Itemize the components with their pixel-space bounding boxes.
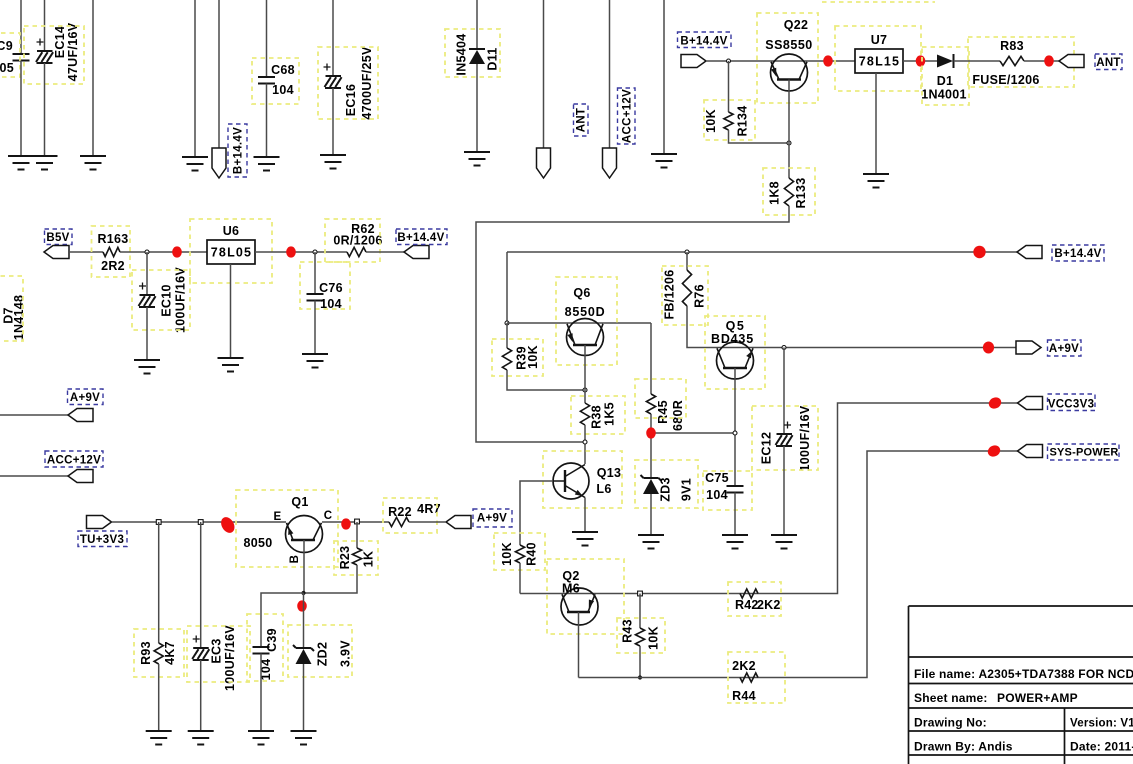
capacitor C68 — [252, 58, 299, 104]
wire R62 to port — [366, 251, 404, 253]
wire rail 11 — [663, 0, 665, 154]
svg-text:L6: L6 — [596, 482, 611, 496]
junction at R23 top — [355, 519, 360, 524]
wire R39 bottom to R38 — [507, 370, 585, 390]
transistor Q1 8050 — [236, 490, 338, 567]
capacitor C75 104 — [703, 471, 752, 510]
svg-text:C9: C9 — [0, 39, 13, 53]
wire EC14 to ground — [44, 63, 46, 156]
svg-text:R163: R163 — [97, 232, 128, 246]
wire R38 top — [584, 390, 586, 403]
red junction dot B+14.4V rail — [973, 246, 985, 258]
wire A+9V left — [0, 414, 68, 416]
svg-text:Q5: Q5 — [726, 319, 746, 333]
svg-text:ANT: ANT — [1096, 57, 1121, 69]
ground rail 3 — [80, 156, 106, 170]
resistor R43 10K — [617, 618, 665, 653]
svg-text:680R: 680R — [671, 400, 685, 431]
svg-text:Drawing No:: Drawing No: — [914, 716, 987, 730]
svg-text:E: E — [274, 511, 282, 523]
resistor R133 1K8 — [763, 168, 815, 215]
svg-text:3.9V: 3.9V — [339, 640, 353, 667]
svg-text:ANT: ANT — [576, 108, 588, 133]
wire junction row — [651, 432, 735, 434]
junction at R134 top — [727, 59, 731, 63]
svg-text:1K8: 1K8 — [768, 181, 782, 205]
capacitor C76 104 — [300, 262, 350, 311]
svg-text:100UF/16V: 100UF/16V — [174, 267, 188, 333]
wire Q2 base down — [578, 612, 580, 678]
wire D1 to R83 — [954, 60, 1001, 62]
svg-text:D1: D1 — [937, 74, 954, 88]
svg-text:Q6: Q6 — [573, 286, 590, 300]
junction at R93 — [156, 520, 161, 525]
ground D11 — [464, 152, 490, 166]
svg-text:ACC+12V: ACC+12V — [47, 455, 101, 467]
ground R93 — [146, 731, 172, 745]
wire net EC16 top — [332, 0, 334, 76]
capacitor EC3 100UF/16V — [187, 625, 250, 691]
wire Q13 emitter to ground — [584, 498, 586, 533]
wire net C9 top — [20, 0, 22, 54]
resistor R39 10K — [492, 339, 543, 376]
svg-text:POWER+AMP: POWER+AMP — [997, 691, 1078, 705]
svg-text:R42: R42 — [735, 598, 759, 612]
svg-text:R133: R133 — [794, 177, 808, 208]
node ACC+12V flag (top) — [603, 88, 636, 178]
svg-text:R93: R93 — [139, 641, 153, 665]
svg-text:C76: C76 — [319, 281, 343, 295]
wire net ACC+12V stub — [609, 0, 611, 148]
ground EC14 — [32, 156, 58, 170]
svg-text:U6: U6 — [223, 224, 240, 238]
node TU+3V3 port — [78, 516, 127, 547]
svg-text:8050: 8050 — [243, 536, 272, 550]
svg-text:R45: R45 — [656, 400, 670, 424]
svg-text:EC10: EC10 — [160, 284, 174, 316]
svg-text:TU+3V3: TU+3V3 — [80, 534, 124, 546]
svg-text:EC14: EC14 — [53, 26, 67, 58]
junction at R76 top — [685, 250, 689, 254]
svg-text:ZD2: ZD2 — [316, 642, 330, 667]
wire B+14.4V to Q22/U7 — [706, 60, 855, 62]
svg-text:File name: A2305+TDA7388 FOR N: File name: A2305+TDA7388 FOR NCD30 — [914, 667, 1133, 681]
wire rail 4 — [194, 0, 196, 157]
wire C68 to ground — [266, 84, 268, 158]
svg-text:A+9V: A+9V — [477, 513, 507, 525]
svg-text:A+9V: A+9V — [70, 392, 100, 404]
wire rail corner down — [506, 252, 508, 323]
wire C9 to ground — [20, 61, 22, 157]
svg-text:EC16: EC16 — [344, 84, 358, 116]
svg-text:R43: R43 — [621, 619, 635, 643]
node A+9V port (mid) — [446, 509, 512, 529]
svg-text:B+14.4V: B+14.4V — [397, 232, 444, 244]
ground ZD2 — [291, 731, 317, 745]
wire net C68 top — [266, 0, 268, 77]
svg-text:ZD3: ZD3 — [659, 477, 673, 502]
diode D7 1N4148 (clipped) — [0, 276, 26, 341]
svg-text:R83: R83 — [1000, 39, 1024, 53]
svg-text:B: B — [289, 555, 301, 564]
svg-text:R76: R76 — [693, 284, 707, 308]
red junction dot Q1 collector — [341, 518, 351, 529]
wire B+14.4V rail — [507, 251, 1017, 253]
svg-text:105: 105 — [0, 61, 14, 75]
resistor R76 FB/1206 — [662, 266, 708, 325]
svg-text:10K: 10K — [704, 109, 718, 133]
ground C76 — [302, 354, 328, 368]
wire Q6 chord — [507, 322, 651, 324]
svg-text:B+14.4V: B+14.4V — [680, 36, 727, 48]
node B+14.4V port (mid) — [396, 229, 447, 259]
svg-text:78L15: 78L15 — [859, 55, 900, 69]
ground EC3 — [188, 731, 214, 745]
wire ACC+12V left — [0, 475, 68, 477]
wire ZD2 to ground — [303, 664, 305, 731]
svg-text:R23: R23 — [338, 546, 352, 570]
node ANT flag (top) — [537, 104, 589, 178]
wire rail 3 — [92, 0, 94, 156]
red junction dot TU line — [218, 515, 237, 536]
node ANT port (right) — [1059, 54, 1122, 70]
svg-text:A+9V: A+9V — [1049, 343, 1079, 355]
ground C9 — [8, 156, 34, 170]
node SYS-POWER port — [1018, 444, 1120, 460]
svg-text:2K2: 2K2 — [732, 659, 756, 673]
transistor Q13 L6 — [543, 451, 622, 508]
wire U6 ground pin — [230, 264, 232, 358]
wire Q6 base down — [584, 345, 586, 390]
junction at EC10 — [145, 250, 149, 254]
ground EC10 — [134, 360, 160, 374]
wire Q6 collector down / R45 branch — [650, 323, 652, 394]
svg-text:VCC3V3: VCC3V3 — [1048, 399, 1095, 411]
wire R40 to Q2 chord rail — [520, 403, 1018, 594]
wire Q1 collector — [322, 521, 389, 523]
resistor R38 1K5 — [571, 396, 625, 434]
wire net D11 top — [476, 0, 478, 50]
ground rail 4 — [182, 157, 208, 171]
wire U7 ground pin — [875, 73, 877, 174]
wire R93 down — [158, 522, 160, 643]
wire B5V to R163 — [69, 251, 103, 253]
wire Q13 base — [520, 481, 553, 545]
svg-text:C: C — [324, 510, 333, 522]
transistor Q5 BD435 — [705, 316, 765, 389]
wire R43 top — [639, 594, 641, 629]
wire R134 bottom — [729, 130, 790, 143]
svg-text:Date: 2011-7: Date: 2011-7 — [1070, 740, 1133, 754]
wire C76 to ground — [314, 301, 316, 355]
svg-text:D11: D11 — [486, 47, 500, 70]
svg-text:9V1: 9V1 — [680, 478, 694, 501]
svg-text:0R/1206: 0R/1206 — [333, 234, 382, 248]
wire EC16 to ground — [332, 88, 334, 155]
svg-text:R38: R38 — [590, 405, 604, 429]
transistor Q6 8550D — [556, 277, 617, 365]
svg-text:R40: R40 — [525, 542, 539, 566]
wire C75 to ground — [734, 493, 736, 536]
svg-text:BD435: BD435 — [711, 332, 754, 346]
resistor R163 2R2 — [92, 226, 131, 277]
resistor R83 FUSE/1206 — [968, 37, 1074, 87]
svg-text:R22: R22 — [388, 505, 412, 519]
svg-text:B5V: B5V — [46, 232, 69, 244]
node B+14.4V port (Q22 emitter) — [678, 32, 732, 68]
wire R23 bottom — [304, 565, 358, 593]
ground U6 — [218, 358, 244, 372]
resistor R62 0R/1206 — [325, 219, 383, 262]
wire net B+14.4V stub — [218, 0, 220, 148]
svg-text:100UF/16V: 100UF/16V — [223, 625, 237, 691]
ground EC12 — [771, 535, 797, 549]
resistor R40 10K — [494, 533, 545, 570]
svg-text:Sheet name:: Sheet name: — [914, 691, 988, 705]
svg-text:FUSE/1206: FUSE/1206 — [972, 73, 1039, 87]
wire R22 to A+9V port — [409, 521, 446, 523]
wire EC12 to ground — [783, 446, 785, 535]
junction at Q6 chord — [505, 321, 509, 325]
node A+9V port (left) — [68, 389, 104, 422]
wire Q2 emitter rail — [579, 451, 1018, 678]
wire R76 to Q5 rail — [687, 306, 1017, 348]
ground ZD3 — [638, 535, 664, 549]
svg-text:ACC+12V: ACC+12V — [622, 89, 634, 143]
wire ZD3 to ground — [650, 494, 652, 535]
title block — [909, 606, 1133, 764]
red junction dot SYS-POWER — [986, 443, 1002, 459]
node A+9V port (right) — [1016, 340, 1081, 356]
svg-text:78L05: 78L05 — [211, 246, 252, 260]
svg-text:SS8550: SS8550 — [765, 38, 812, 52]
svg-text:C68: C68 — [271, 63, 295, 77]
wire R38 bottom — [584, 425, 586, 464]
svg-text:EC12: EC12 — [760, 432, 774, 464]
transistor Q22 SS8550 — [757, 13, 818, 103]
svg-text:SYS-POWER: SYS-POWER — [1049, 447, 1118, 459]
diode D1 1N4001 — [921, 47, 969, 105]
svg-text:C75: C75 — [705, 471, 729, 485]
svg-text:10K: 10K — [500, 542, 514, 566]
junction at Q6 base / R38 — [583, 388, 587, 392]
capacitor C39 104 — [247, 614, 283, 681]
wire Q22 base down — [788, 80, 790, 179]
red junction dot U7-D1 — [916, 55, 926, 66]
capacitor EC16 — [318, 46, 378, 120]
capacitor EC12 100UF/16V — [752, 405, 818, 471]
resistor R93 4K7 — [134, 629, 184, 677]
red junction dot R163-U6 — [172, 246, 182, 257]
wire EC3 to ground — [200, 660, 202, 731]
regulator U6 78L05 — [190, 219, 272, 283]
wire EC10 to ground — [146, 307, 148, 360]
wire net ANT stub — [543, 0, 545, 148]
junction at R43 top — [638, 591, 643, 596]
junction at Q5 base / C75 — [733, 431, 737, 435]
wire U7 out — [903, 60, 937, 62]
node VCC3V3 port — [1018, 394, 1096, 411]
zener ZD3 9V1 — [635, 460, 698, 508]
regulator U7 78L15 — [835, 26, 921, 91]
svg-text:1K: 1K — [362, 551, 376, 568]
svg-text:U7: U7 — [871, 33, 888, 47]
junction at R38 bottom — [583, 440, 587, 444]
node B+14.4V port (right) — [1017, 245, 1104, 261]
wire net EC14 top — [44, 0, 46, 51]
wire EC12 down — [783, 348, 785, 435]
svg-text:104: 104 — [320, 297, 342, 311]
svg-text:10K: 10K — [526, 345, 540, 369]
wire R163 to U6 — [120, 251, 207, 253]
ground Q13 — [572, 532, 598, 546]
svg-text:Version: V1: Version: V1 — [1070, 718, 1133, 730]
svg-text:100UF/16V: 100UF/16V — [798, 405, 812, 471]
wire R134 top — [728, 61, 730, 112]
svg-text:Drawn By: Andis: Drawn By: Andis — [914, 740, 1013, 754]
svg-text:2K2: 2K2 — [757, 598, 781, 612]
red junction dot A+9V rail — [983, 342, 994, 354]
svg-text:FB/1206: FB/1206 — [663, 269, 677, 319]
wire R45 to ZD3 — [650, 414, 652, 478]
junction at EC3 — [198, 520, 203, 525]
svg-text:104: 104 — [272, 83, 294, 97]
wire R133 to long run — [476, 206, 789, 442]
red junction dot ZD3 — [646, 427, 656, 438]
svg-text:1N4001: 1N4001 — [921, 88, 967, 102]
transistor Q2 M6 — [547, 559, 624, 634]
junction at C76 — [313, 250, 317, 254]
resistor R22 4R7 — [383, 498, 441, 533]
svg-text:M6: M6 — [562, 582, 580, 596]
ground C75 — [722, 535, 748, 549]
wire R23 top — [356, 522, 358, 548]
capacitor EC10 100UF/16V — [132, 267, 190, 333]
diode D11 — [445, 29, 500, 77]
node B+14.4V flag (top) — [212, 124, 247, 178]
wire C76 down — [314, 252, 316, 294]
resistor R23 1K — [334, 541, 378, 575]
junction at EC12 top — [782, 346, 786, 350]
wire C39 to ground — [260, 654, 262, 732]
svg-text:Q22: Q22 — [784, 18, 809, 32]
wire base row left — [261, 593, 304, 647]
red junction dot ZD2 top — [297, 600, 307, 611]
svg-text:8550D: 8550D — [565, 305, 606, 319]
svg-text:EC3: EC3 — [210, 638, 224, 663]
capacitor EC14 — [24, 22, 84, 84]
ground rail 11 — [651, 154, 677, 168]
svg-text:Q1: Q1 — [291, 495, 308, 509]
wire R76 top — [686, 252, 688, 270]
red junction dot U6 out — [286, 246, 296, 257]
wire EC10 down — [146, 252, 148, 295]
wire U6 out — [255, 251, 347, 253]
junction at Q22 base — [787, 141, 791, 145]
svg-text:IN5404: IN5404 — [455, 33, 469, 75]
resistor R42 2K2 — [728, 582, 781, 616]
wire Q5 base down — [734, 368, 736, 486]
ground C68 — [254, 157, 280, 171]
svg-text:Q13: Q13 — [597, 466, 622, 480]
junction at Q1 base — [301, 591, 305, 595]
wire ZD2 top — [303, 593, 305, 648]
svg-text:C39: C39 — [265, 628, 279, 652]
svg-text:B+14.4V: B+14.4V — [233, 127, 245, 174]
wire R93 to ground — [158, 664, 160, 731]
red junction dot Q22-U7 — [823, 55, 833, 66]
svg-text:R44: R44 — [732, 689, 756, 703]
ground U7 — [863, 174, 889, 188]
svg-text:10K: 10K — [647, 626, 661, 650]
zener ZD2 3.9V — [288, 625, 353, 677]
svg-text:B+14.4V: B+14.4V — [1054, 248, 1101, 260]
red junction dot at ANT — [1044, 55, 1054, 66]
selection box fragment top — [822, 1, 935, 3]
svg-text:4K7: 4K7 — [163, 641, 177, 665]
red junction dot VCC3V3 — [987, 395, 1003, 411]
capacitor C9 — [0, 33, 30, 77]
ground EC16 — [320, 155, 346, 169]
node B5V port — [44, 229, 72, 259]
svg-text:2R2: 2R2 — [101, 259, 125, 273]
svg-text:4700UF/25V: 4700UF/25V — [360, 46, 374, 120]
svg-text:1K5: 1K5 — [603, 402, 617, 426]
wire R83 to ANT — [1024, 60, 1059, 62]
node ACC+12V port (left) — [45, 451, 103, 483]
svg-text:47UF/16V: 47UF/16V — [66, 22, 80, 81]
wire Q1 base down — [303, 540, 305, 593]
wire TU+3V3 to Q1 — [112, 521, 287, 523]
wire D11 to ground — [476, 64, 478, 152]
svg-text:R134: R134 — [736, 105, 750, 136]
wire EC3 down — [200, 522, 202, 648]
resistor R134 10K — [704, 100, 755, 140]
junction at R43 bottom — [638, 675, 642, 679]
ground C39 — [248, 731, 274, 745]
svg-text:104: 104 — [706, 488, 728, 502]
resistor R45 680R — [635, 379, 686, 431]
wire R39 top — [506, 323, 508, 348]
wire R43 bottom — [639, 646, 641, 678]
wire R40 bottom — [519, 563, 521, 594]
resistor R44 2K2 — [728, 652, 785, 703]
